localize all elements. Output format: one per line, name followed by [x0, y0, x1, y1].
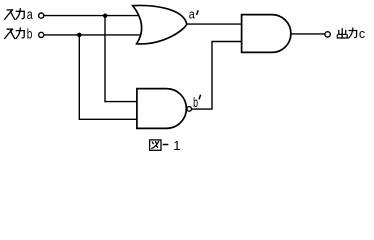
label 出力c (output c)	[337, 28, 356, 38]
svg-text:a: a	[189, 8, 195, 22]
wire OR output a' to AND upper input	[187, 23, 242, 25]
output terminal c	[325, 32, 330, 37]
input terminal a	[39, 13, 44, 18]
wire AND output to output terminal c	[291, 33, 325, 35]
input terminal b	[39, 32, 44, 37]
wire node A vertical down to NAND upper input	[105, 16, 138, 102]
label 入力b (input b)	[5, 28, 25, 38]
svg-text:1: 1	[173, 138, 180, 153]
svg-text:b: b	[27, 27, 33, 42]
node B junction dot	[77, 33, 82, 38]
node A junction dot	[103, 14, 107, 18]
label 入力a (input a)	[5, 9, 25, 19]
svg-text:b: b	[193, 94, 198, 110]
svg-text:c: c	[359, 27, 365, 41]
NAND output inversion bubble	[187, 107, 192, 112]
wire input b to OR gate	[44, 34, 141, 36]
wire NAND output b' up to AND lower input	[192, 42, 242, 110]
svg-text:a: a	[27, 7, 33, 22]
wire node B vertical down to NAND lower input	[79, 35, 138, 119]
OR gate U1	[133, 5, 187, 43]
wire input a to OR gate	[44, 15, 140, 17]
NAND gate U2	[137, 89, 186, 129]
AND gate U3	[242, 15, 291, 53]
caption 図-1	[150, 140, 168, 150]
